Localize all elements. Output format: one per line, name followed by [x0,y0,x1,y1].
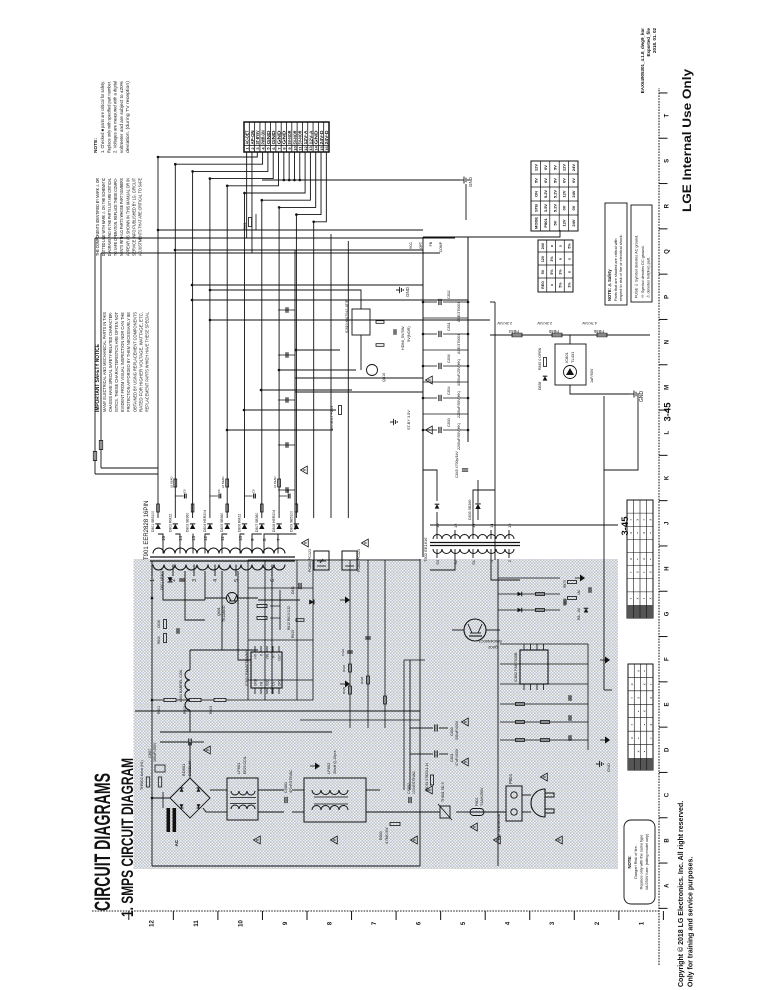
svg-text:x: x [636,571,640,573]
svg-text:C8: C8 [182,489,186,493]
svg-text:R602: R602 [183,706,187,714]
svg-text:TK12A60D: TK12A60D [222,605,226,622]
svg-text:PC801 PC123: PC801 PC123 [308,549,312,572]
svg-text:8: 8 [262,538,267,541]
svg-text:B: B [665,838,671,843]
svg-text:SRD51 STB20L1-14: SRD51 STB20L1-14 [425,763,429,792]
svg-text:5V-NOR: 5V-NOR [292,130,297,145]
capacitor CX801 [284,797,286,803]
svg-text:GND: GND [405,286,410,297]
svg-text:x: x [636,597,640,599]
svg-text:⚠ denotes hot(live) part.: ⚠ denotes hot(live) part. [647,257,651,298]
capacitor cluster pfc drive [568,735,570,741]
svg-text:P804: P804 [508,774,513,784]
resistor cluster pwm aux [349,686,352,694]
svg-text:REPLACEMENT PARTS WHICH HAVE T: REPLACEMENT PARTS WHICH HAVE THESE SPECI… [144,311,149,412]
svg-text:5%: 5% [567,243,571,249]
warning triangles left column [254,836,261,844]
svg-text:x: x [636,697,640,699]
svg-text:LF801: LF801 [236,762,241,774]
svg-text:x: x [636,670,640,672]
svg-text:2: 2 [595,921,601,925]
svg-text:2: 2 [250,147,255,150]
svg-text:R821: R821 [243,222,247,230]
svg-text:6: 6 [270,579,276,582]
svg-text:voltmeter and are subject to ±: voltmeter and are subject to ±20% [119,81,124,153]
warning triangle caps [462,758,469,766]
svg-text:OUT: OUT [278,654,282,661]
svg-text:M: M [665,385,671,390]
svg-text:▪: ▪ [636,737,640,738]
svg-text:C618: C618 [157,620,161,628]
svg-text:IC810 KIA7042-AT/P: IC810 KIA7042-AT/P [345,299,349,333]
wire long vertical x612 [295,377,423,379]
primary side shaded hot area [134,559,619,869]
svg-text:▪: ▪ [629,598,633,599]
svg-text:4: 4 [260,147,265,150]
svg-text:GND: GND [276,131,281,145]
svg-text:▪: ▪ [643,751,647,752]
svg-text:C831: C831 [447,322,451,331]
svg-text:x: x [643,710,647,712]
svg-text:▪: ▪ [636,532,640,533]
ac plug [531,789,545,817]
svg-text:BD801: BD801 [181,763,186,776]
svg-text:x: x [649,519,653,521]
svg-text:14: 14 [178,535,183,541]
svg-text:D805 SB560: D805 SB560 [220,513,224,532]
svg-text:Copyright © 2018 LG Electronic: Copyright © 2018 LG Electronics. Inc. Al… [677,801,685,987]
svg-text:0V: 0V [543,165,548,170]
svg-text:R873: R873 [563,580,567,588]
wire primary dc bus vertical [135,710,420,712]
svg-text:2: 2 [171,579,177,582]
warning triangle bulk [204,746,211,754]
svg-text:⏛ Symbol denotes DC ground.: ⏛ Symbol denotes DC ground. [641,245,645,298]
svg-text:Danger! Risk of fire.: Danger! Risk of fire. [634,845,638,879]
pfc controller IC802 box [520,650,548,684]
thermistor TH801 [440,806,450,818]
svg-text:EVIDENT FROM VISUAL INSPECTION: EVIDENT FROM VISUAL INSPECTION NOR CAN T… [120,312,125,412]
svg-text:5V: 5V [552,178,557,183]
svg-text:LGE Internal Use Only: LGE Internal Use Only [680,69,694,212]
ferrite beads FB44 FB45 FB46 rail [490,334,650,336]
svg-text:2.2K/1W: 2.2K/1W [497,321,512,325]
svg-text:C8: C8 [252,489,256,493]
svg-text:10: 10 [292,146,297,151]
svg-text:2200uF/50V(HK): 2200uF/50V(HK) [457,423,461,450]
svg-text:CX801: CX801 [284,782,288,793]
svg-text:FB: FB [429,241,433,246]
svg-text:0V: 0V [562,178,567,183]
line filter LF802 [304,778,366,822]
svg-text:5V: 5V [552,220,557,225]
svg-text:IC802 FAN7930B: IC802 FAN7930B [514,652,518,682]
svg-text:Q810: Q810 [382,373,386,382]
optocoupler PC802 [342,551,357,570]
svg-text:TL431: TL431 [570,351,575,363]
hot ground symbols [310,765,315,767]
svg-text:DOTTED LINE WITH MARK ⚠ ON THE: DOTTED LINE WITH MARK ⚠ ON THE SCHEMATIC [101,178,106,256]
svg-text:NOTE:: NOTE: [93,138,99,153]
svg-text:TH801 5D-9: TH801 5D-9 [441,782,445,802]
svg-text:▪: ▪ [629,519,633,520]
svg-text:3-45: 3-45 [663,402,674,422]
svg-text:S2: S2 [453,559,458,565]
svg-text:MODE: MODE [534,217,539,229]
svg-text:DRV: DRV [278,678,282,686]
border ruler vertical (rows 1-12) [92,910,659,912]
svg-text:L8 BEAD: L8 BEAD [273,476,277,488]
svg-text:PWR-ON: PWR-ON [260,131,265,145]
svg-text:x: x [636,519,640,521]
svg-text:24V: 24V [541,242,545,249]
regulator IC810 KIA7042 cluster [352,309,370,335]
svg-text:6: 6 [271,147,276,150]
table regulation spec [538,240,573,292]
wire 24V rail pair with electrolytic capacitors [422,237,424,557]
svg-text:12: 12 [303,146,308,151]
wire right drop to note boxes [468,230,560,237]
capacitor CX802 across line [408,797,410,803]
gnd symbol feedback [630,393,634,395]
svg-text:24V: 24V [571,190,576,197]
svg-text:NENTS WITH LG PARTS WHOSE PART: NENTS WITH LG PARTS WHOSE PART NUMBERS [119,178,124,256]
svg-text:EE25 COIL: EE25 COIL [243,756,247,774]
svg-text:10: 10 [238,920,244,927]
resistor R845 [544,358,547,367]
wire stair fan pins to rails [158,152,257,157]
shunt regulator IC801 TL431 block [555,344,586,385]
svg-text:R625: R625 [342,686,346,694]
svg-text:470nF/275VAC: 470nF/275VAC [289,770,293,793]
svg-text:16: 16 [324,146,329,151]
svg-text:D803 SB360: D803 SB360 [186,513,190,532]
svg-text:▪: ▪ [649,737,653,738]
svg-text:PC802 PC123: PC802 PC123 [357,549,361,572]
svg-text:7: 7 [372,921,378,925]
label AC input bold [167,808,171,832]
svg-text:REG: REG [541,281,545,289]
svg-text:NOTE: ⚠ Safety: NOTE: ⚠ Safety [607,269,612,301]
gnd symbol mid [390,421,394,423]
svg-text:x: x [629,558,633,560]
svg-text:D835 SB360: D835 SB360 [468,500,472,520]
wire pfc 400V bus [419,559,421,866]
wire long vertical x598 [295,391,423,393]
wire pfc ladder [403,660,405,790]
svg-text:D838: D838 [538,382,542,390]
svg-text:Only for training and service: Only for training and service purposes. [688,857,695,987]
svg-text:5.2V: 5.2V [543,190,548,199]
wire long feedback rail [494,302,496,560]
line filter LF801 [227,778,258,820]
svg-text:Replace only with the same typ: Replace only with the same type [640,835,644,890]
svg-text:12V-A: 12V-A [308,130,313,145]
svg-text:FB45: FB45 [548,329,559,334]
svg-text:THE COMPONENTS IDENTIFIED BY M: THE COMPONENTS IDENTIFIED BY MARK ⚠ OR [95,178,100,256]
svg-text:▪: ▪ [630,697,634,698]
svg-text:C845 4700p/1kV: C845 4700p/1kV [455,451,459,478]
svg-text:15: 15 [319,146,324,151]
svg-text:P801: P801 [543,218,548,228]
svg-text:3.5V: 3.5V [543,204,548,213]
transistor Q810 [367,365,378,376]
svg-text:L8 BEAD: L8 BEAD [221,476,225,488]
table connector usage matrix right [627,500,653,618]
svg-text:12V: 12V [534,164,539,171]
svg-text:respect to risk of fire or ele: respect to risk of fire or electrical sh… [619,234,623,301]
svg-text:160uF/450V: 160uF/450V [153,742,157,762]
wire standby secondary [436,512,438,530]
svg-text:▪: ▪ [636,711,640,712]
svg-text:C622: C622 [341,648,345,656]
svg-text:9: 9 [287,147,292,150]
svg-text:R612 R613 0.22: R612 R613 0.22 [287,606,291,630]
svg-text:5V-NOR: 5V-NOR [298,130,303,145]
svg-text:12V: 12V [562,164,567,171]
svg-text:x: x [649,571,653,573]
mosfet Q601 main switch [227,593,238,604]
table power mode voltages [531,161,578,231]
wire pwm aux ladder [349,560,351,728]
svg-text:x: x [649,697,653,699]
inrush thermistor cluster [146,777,149,787]
gray bottom right cluster [568,597,577,600]
gnd label gray bottom [596,763,600,765]
diode D838 [543,376,548,380]
svg-text:F801: F801 [475,797,479,806]
svg-text:VIN: VIN [266,653,270,659]
wire long vertical feedback x752 [95,237,455,239]
svg-text:10: 10 [238,535,243,541]
svg-text:R601: R601 [157,706,161,714]
svg-text:A: A [665,883,671,888]
svg-text:SERVICE INFO PUBLISHED BY LG.: SERVICE INFO PUBLISHED BY LG. CIRCUIT [131,178,136,256]
svg-text:0V: 0V [562,205,567,210]
bulk capacitor C807 160uF/450V [189,742,191,766]
svg-text:C836: C836 [447,354,451,363]
svg-text:5V-NOR: 5V-NOR [287,130,292,145]
svg-text:4.7K/1W: 4.7K/1W [582,321,597,325]
svg-text:R628: R628 [360,676,364,684]
svg-text:11: 11 [220,536,225,541]
svg-text:ADJUSTMENTS THAT ARE CRITICAL: ADJUSTMENTS THAT ARE CRITICAL TO SAFE [137,178,142,256]
wire primary bus lines [402,811,420,813]
svg-text:S1: S1 [471,559,476,565]
svg-text:3: 3 [550,921,556,925]
svg-text:IC801: IC801 [564,352,569,363]
svg-text:12V: 12V [562,219,567,226]
svg-text:Exported_file: Exported_file [646,28,651,57]
svg-text:6: 6 [417,921,423,925]
svg-text:1uF/50V: 1uF/50V [590,368,594,383]
svg-text:RATED FOR HIGHER VOLTAGE, WATT: RATED FOR HIGHER VOLTAGE, WATTAGE, ETC. [138,312,143,412]
svg-text:D: D [665,747,671,752]
svg-text:4A/250V fuse. (rating model on: 4A/250V fuse. (rating model only) [645,833,649,890]
snubber cluster [296,619,304,622]
svg-text:13: 13 [191,535,196,541]
svg-text:4: 4 [489,559,494,562]
wire output rails [157,157,159,518]
svg-text:D611: D611 [291,586,295,594]
svg-text:2: 2 [507,559,512,562]
wire standby 5V down [430,524,618,526]
svg-text:5V: 5V [552,165,557,170]
svg-text:2018. 01. 02: 2018. 01. 02 [652,28,657,54]
svg-text:D807 SB360: D807 SB360 [255,513,259,532]
svg-text:INT/EXT +24V: INT/EXT +24V [330,405,334,430]
svg-text:5: 5 [266,147,271,150]
label GND arrow right [465,184,467,220]
svg-text:T4AH/250V: T4AH/250V [480,787,484,806]
svg-text:R8.. 1M: R8.. 1M [577,608,581,620]
svg-text:C830: C830 [450,727,454,736]
warning triangle fuse [471,823,478,831]
svg-text:9: 9 [250,538,255,541]
svg-text:AC-DET: AC-DET [245,130,250,144]
svg-text:K: K [665,475,671,480]
svg-text:8: 8 [282,147,287,150]
svg-text:COMP: COMP [439,241,443,252]
svg-text:D809 SB5100: D809 SB5100 [289,511,293,532]
svg-text:EAX64905301_4.1.8_dwg9_kor: EAX64905301_4.1.8_dwg9_kor [640,28,645,94]
svg-text:▪: ▪ [649,532,653,533]
svg-text:▪: ▪ [630,724,634,725]
svg-text:5%: 5% [550,269,554,275]
svg-text:Q601: Q601 [217,607,221,616]
fuse F801 4A/250V [470,811,506,813]
svg-text:GND: GND [639,391,645,403]
svg-text:THR802 4ohm (HL): THR802 4ohm (HL) [140,760,144,790]
svg-text:5: 5 [461,921,467,925]
svg-text:x: x [550,284,554,286]
svg-text:DIAGRAMS AND IN THE PARTS LIST: DIAGRAMS AND IN THE PARTS LIST ARE CRITI… [107,177,112,256]
svg-text:H: H [665,566,671,570]
svg-text:2. Voltages are measured with: 2. Voltages are measured with a digital [113,81,118,153]
svg-text:APPEAR AS SHOWN IN THIS MANUAL: APPEAR AS SHOWN IN THIS MANUAL OR IN [125,178,130,256]
svg-text:N: N [665,340,671,344]
svg-text:C832: C832 [447,290,451,299]
svg-text:4: 4 [213,579,219,582]
svg-text:5.2V: 5.2V [552,190,557,199]
svg-text:o: o [559,257,563,260]
svg-text:5: 5 [234,579,240,582]
svg-text:0V: 0V [571,205,576,210]
wire top primary rail [151,561,153,866]
gnd symbol connector bus [460,179,464,181]
svg-text:Q602: Q602 [487,645,498,650]
svg-text:▪: ▪ [643,670,647,671]
svg-text:x: x [630,737,634,739]
optocoupler PC801 [314,551,329,570]
svg-text:TO SAFE OPERATION. REPLACE THE: TO SAFE OPERATION. REPLACE THESE COMPO- [113,178,118,256]
svg-text:CIRCUIT DIAGRAMS: CIRCUIT DIAGRAMS [90,773,115,911]
svg-text:C831: C831 [450,753,454,762]
svg-text:R603: R603 [209,706,213,714]
transformer T901 primary winding [153,565,285,571]
svg-text:▪: ▪ [649,684,653,685]
svg-text:ISTICS. THESE CHARACTERISTICS: ISTICS. THESE CHARACTERISTICS ARE OFTEN … [114,312,119,412]
svg-text:ASE/3T0001: ASE/3T0001 [457,302,461,322]
svg-text:x: x [629,532,633,534]
ac detect cluster [536,609,545,612]
svg-text:x: x [649,724,653,726]
svg-text:L8 BEAD: L8 BEAD [169,476,173,488]
svg-text:HDMI_5V/SW: HDMI_5V/SW [401,326,405,350]
wire pfc drive ladder [497,559,499,866]
svg-text:0V: 0V [543,178,548,183]
svg-text:11: 11 [298,146,303,151]
svg-text:LF802: LF802 [326,762,331,774]
svg-text:D804 HER204: D804 HER204 [203,510,207,532]
svg-text:▪: ▪ [642,519,646,520]
svg-text:3%: 3% [559,269,563,275]
svg-text:30mH Q-10pcs: 30mH Q-10pcs [333,750,337,774]
svg-text:GND: GND [468,176,473,187]
svg-text:GND: GND [254,678,258,686]
capacitor C845 4700p/1kV [462,470,468,472]
secondary snubber parts on rails [157,504,160,512]
svg-text:▪: ▪ [629,572,633,573]
svg-text:3%: 3% [550,256,554,262]
svg-text:X: X [260,653,264,656]
resistor STB20L1-14 [430,775,433,785]
start resistor chain [164,698,176,701]
wire vertical drops mid field [227,429,333,431]
standby transformer T602 [430,545,520,547]
svg-text:J: J [665,522,671,525]
svg-text:ST-BY 3.5V: ST-BY 3.5V [407,410,411,430]
svg-text:CHASSIS HAVE SPECIAL SAFETY-RE: CHASSIS HAVE SPECIAL SAFETY-RELATED CHAR… [108,311,113,412]
wire primary pin nets [163,571,205,600]
svg-text:▪: ▪ [642,598,646,599]
wire secondary ground bus [294,250,296,530]
svg-text:P: P [665,295,671,299]
secondary rectifier diodes and filters [158,534,163,543]
svg-text:x: x [649,597,653,599]
svg-text:R626: R626 [342,664,346,672]
gnd symbol regulator [396,289,400,291]
svg-text:Q: Q [665,249,671,254]
svg-text:14: 14 [314,146,319,151]
svg-text:3: 3 [192,579,198,582]
svg-text:12V-A: 12V-A [303,130,308,145]
svg-text:GND: GND [282,131,287,145]
svg-text:4: 4 [506,921,512,925]
svg-text:5V(NOR): 5V(NOR) [407,326,411,342]
resistor R803 4.7M [390,823,400,826]
svg-text:24V-D: 24V-D [324,131,329,145]
snubber cap C613 [179,580,185,582]
svg-text:8: 8 [327,921,333,925]
svg-text:x: x [630,683,634,685]
svg-text:GND: GND [271,131,276,145]
svg-text:24V: 24V [571,219,576,226]
wire long vertical feedback x737 [101,252,440,254]
svg-text:12V: 12V [541,255,545,262]
svg-text:HV: HV [254,653,258,658]
wire pwm ladder [247,560,249,700]
svg-text:GND: GND [606,763,611,772]
snubber diode D601 [167,577,172,582]
svg-text:AP-ON: AP-ON [250,131,255,145]
svg-text:x: x [642,558,646,560]
wire bottom rail to tables [604,394,638,470]
svg-text:11: 11 [194,920,200,927]
svg-text:9: 9 [283,921,289,925]
snubber parts cluster [164,634,167,643]
